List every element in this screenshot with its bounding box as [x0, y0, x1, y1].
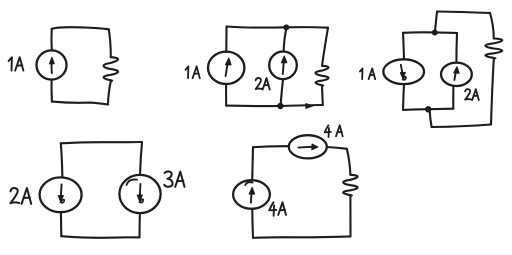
current source I2 (1A)	[208, 52, 244, 84]
wire: C2 left top	[225, 27, 227, 52]
current source I6 (2A, down)	[40, 177, 82, 212]
label 4A (top)	[325, 125, 343, 137]
wire: C3 inner bottom	[403, 109, 453, 110]
wire: C3 inner left upper	[403, 33, 404, 60]
current source I7 (3A, down)	[119, 175, 160, 213]
wire: C5 left lower	[251, 209, 254, 238]
wire: C1 left bottom	[50, 80, 52, 102]
wire: C1 right top	[109, 29, 111, 57]
wire: C3 outer right upper	[490, 13, 494, 39]
wire: C2 middle top	[284, 27, 287, 52]
wire: C5 top right	[327, 147, 347, 149]
arrow of I6 (down)	[60, 185, 63, 200]
arrow of I7 (down)	[139, 184, 142, 199]
wire: C5 right upper	[347, 149, 351, 175]
label 1A	[9, 57, 24, 70]
wire: C2 bottom	[226, 105, 323, 106]
wire: C2 middle bottom	[281, 79, 284, 106]
wire: C1 top	[52, 27, 109, 29]
wire: C5 bottom	[253, 236, 351, 237]
arrow of I5 (up)	[454, 69, 456, 81]
wire: C3 stub up	[435, 12, 437, 33]
current source I1	[36, 50, 66, 79]
wire: C3 stub to bottom dot	[430, 109, 432, 127]
wire: C1 right bottom	[108, 81, 111, 103]
current source I5 (2A, up)	[441, 63, 472, 86]
wire: C2 top	[227, 27, 329, 28]
resistor R2	[315, 66, 328, 86]
wire: C2 left bottom	[225, 84, 227, 106]
wire: C3 inner right lower	[452, 86, 454, 109]
wire: C4 right bottom	[138, 213, 140, 237]
wire: C1 left top	[50, 29, 52, 51]
wire: C5 top left	[253, 146, 289, 147]
wire: C3 outer right lower	[491, 59, 494, 125]
wire: C1 bottom	[52, 102, 108, 105]
arrow of I4 (down)	[401, 65, 403, 77]
wire: C4 left bottom	[60, 212, 62, 236]
wire: C4 right top	[140, 142, 142, 175]
pen curl on I7 circle	[127, 179, 138, 185]
label 2A (circuit 4)	[10, 188, 31, 204]
wire: C4 top	[61, 142, 142, 143]
resistor R1	[104, 57, 118, 81]
node: bottom junction dot	[277, 103, 283, 109]
wire: C5 left upper	[251, 147, 254, 180]
wire: C3 inner top	[403, 31, 457, 34]
label 3A	[164, 171, 184, 186]
node: C3 top junction dot	[432, 30, 438, 36]
label 1A (circuit 3)	[360, 68, 375, 79]
current source I8 (4A, right)	[289, 135, 327, 158]
wire: C2 right top	[322, 28, 328, 66]
wire: C3 inner right upper	[455, 33, 458, 63]
wire: C3 outer top	[437, 12, 490, 14]
label 2A	[256, 78, 270, 90]
label 4A (left source)	[269, 202, 286, 216]
current source I4 (1A, down)	[383, 59, 424, 84]
label 2A (circuit 3)	[465, 89, 479, 100]
arrow of I8 (right)	[299, 146, 314, 149]
pen curl on I9 circle	[245, 182, 252, 185]
wire: C4 left top	[61, 143, 63, 177]
current source I3 (2A)	[269, 51, 297, 79]
arrow of I9 (up)	[250, 190, 253, 203]
wire: C3 outer bottom	[432, 125, 491, 128]
arrow of I1 (up)	[51, 60, 53, 74]
wire: C2 right bottom	[321, 86, 324, 105]
node: C3 bottom junction dot	[425, 106, 431, 112]
node: top junction dot	[283, 24, 289, 30]
arrow of I2 (up)	[226, 61, 229, 77]
resistor R3	[485, 39, 502, 59]
resistor R4	[343, 175, 357, 196]
label 1A (circuit 2)	[186, 66, 200, 78]
current direction arrow on C2 bottom wire	[306, 104, 313, 109]
wire: C4 bottom	[61, 236, 139, 238]
wire: C3 inner left lower	[403, 84, 404, 110]
wire: C5 right lower	[349, 196, 351, 236]
current source I9 (4A, up)	[233, 180, 270, 209]
arrow of I3 (up)	[283, 59, 284, 75]
